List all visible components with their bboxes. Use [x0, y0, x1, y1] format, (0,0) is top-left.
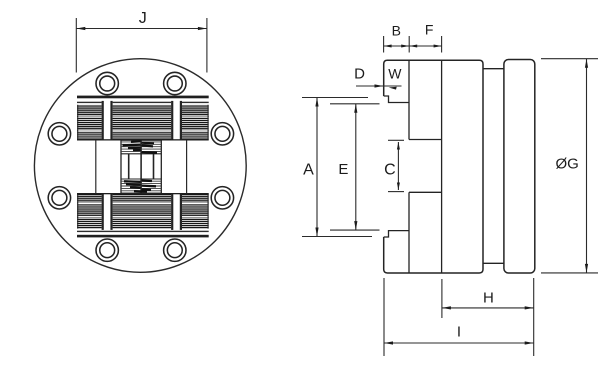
label A	[303, 162, 314, 179]
bolt hole bottom-right	[164, 239, 186, 261]
svg-text:D: D	[354, 65, 365, 82]
label D	[354, 65, 365, 82]
bottom band smears	[124, 181, 156, 192]
label F	[425, 22, 434, 38]
dimension F	[409, 36, 441, 53]
label I	[457, 323, 461, 340]
hub body outline	[384, 60, 483, 273]
spacer neck bottom	[483, 262, 504, 264]
dimension B	[384, 36, 410, 53]
outer flange circle	[34, 59, 246, 273]
bolt hole right-lower	[211, 187, 233, 209]
bore bottom line	[409, 191, 442, 193]
bottom band sketch lines	[121, 181, 161, 191]
label C	[384, 161, 396, 178]
label W	[388, 66, 402, 82]
dimension J arrowheads	[76, 27, 207, 30]
dimension I	[384, 278, 534, 356]
horizontal internal lines	[121, 154, 161, 179]
hub section line upper	[408, 60, 410, 139]
svg-text:E: E	[338, 161, 348, 178]
label B	[392, 22, 401, 38]
svg-text:ØG: ØG	[556, 156, 579, 173]
spacer neck top	[483, 68, 504, 70]
dimension D leader	[356, 84, 402, 89]
bolt hole top-right	[164, 72, 186, 94]
bolt hole left-lower	[48, 187, 70, 209]
vertical internal lines	[129, 154, 154, 179]
top band smears	[123, 141, 158, 153]
svg-text:W: W	[388, 66, 402, 82]
dimension C	[388, 140, 404, 191]
bottom disc pack	[77, 193, 209, 230]
right hub block	[504, 60, 535, 274]
top disc pack	[77, 101, 209, 141]
dimension H	[442, 278, 534, 356]
bolt hole left-upper	[48, 123, 70, 145]
top plate inner line	[77, 102, 209, 103]
dimension ØG	[541, 59, 598, 273]
label E	[338, 161, 348, 178]
svg-text:I: I	[457, 323, 461, 340]
dimension A	[302, 98, 372, 237]
label H	[483, 289, 494, 306]
bottom plate edge line	[77, 235, 209, 238]
label J	[139, 10, 147, 27]
svg-text:J: J	[139, 10, 147, 27]
bolt hole top-left	[96, 72, 118, 94]
svg-text:H: H	[483, 289, 494, 306]
center line	[140, 140, 142, 193]
bore top line	[409, 139, 442, 141]
bolt hole right-upper	[211, 123, 233, 145]
flange face line	[441, 60, 443, 273]
svg-text:C: C	[384, 161, 396, 178]
svg-text:F: F	[425, 22, 434, 38]
dimension E	[330, 104, 380, 230]
svg-text:A: A	[303, 162, 314, 179]
dimension J	[76, 18, 207, 73]
label ØG	[556, 156, 579, 173]
keyway step top	[384, 96, 410, 103]
svg-text:B: B	[392, 22, 401, 38]
hub section line lower	[408, 192, 410, 273]
keyway step bottom	[384, 231, 410, 237]
top band sketch lines	[121, 142, 161, 152]
bolt hole bottom-left	[96, 239, 118, 261]
center spacer block	[121, 140, 161, 193]
top plate edge line	[77, 96, 209, 99]
bottom plate inner line	[77, 231, 209, 232]
hub edges visible between packs	[96, 140, 187, 193]
